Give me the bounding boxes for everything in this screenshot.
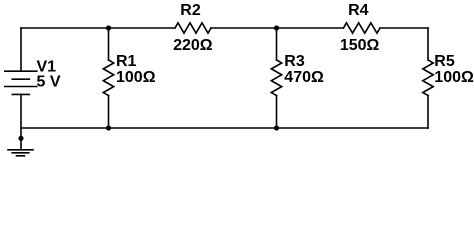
- ground: [8, 150, 33, 156]
- junction: node B top (R3 / top rail): [274, 25, 279, 30]
- battery V1: [5, 71, 37, 94]
- svg-text:R1: R1: [116, 53, 137, 70]
- svg-text:470Ω: 470Ω: [284, 69, 324, 86]
- svg-text:150Ω: 150Ω: [340, 37, 380, 54]
- resistor R3: [271, 60, 281, 96]
- junction: R3 / bottom rail: [274, 125, 279, 130]
- svg-text:R3: R3: [284, 53, 305, 70]
- wire: top rail between R2 and R4: [211, 27, 343, 29]
- wire: R5 bottom lead: [427, 96, 429, 129]
- svg-text:100Ω: 100Ω: [116, 69, 156, 86]
- resistor R1: [103, 60, 113, 96]
- svg-text:R2: R2: [180, 2, 201, 19]
- junction: ground wire: [18, 136, 23, 141]
- wire: R1 bottom lead: [108, 96, 110, 129]
- wire: top rail from R4 to right corner: [380, 27, 428, 29]
- wire: R1 top lead: [108, 28, 110, 60]
- wire: bottom rail: [21, 127, 428, 129]
- svg-text:R5: R5: [434, 53, 455, 70]
- wire: top rail from left corner to R2: [21, 27, 175, 29]
- wire: left rail upper (top corner to battery + plate): [20, 28, 22, 71]
- junction: node A top (R1 / top rail): [106, 25, 111, 30]
- resistor R5: [423, 60, 433, 96]
- wire: left rail lower (battery - plate through bottom rail to ground): [20, 94, 22, 149]
- svg-text:100Ω: 100Ω: [434, 69, 474, 86]
- wire: R3 top lead: [276, 28, 278, 60]
- svg-text:R4: R4: [348, 2, 369, 19]
- svg-text:5 V: 5 V: [37, 74, 61, 91]
- resistor R4: [343, 23, 380, 33]
- svg-text:220Ω: 220Ω: [173, 37, 213, 54]
- wire: R5 top lead: [427, 28, 429, 60]
- resistor R2: [175, 23, 211, 33]
- wire: R3 bottom lead: [276, 96, 278, 129]
- junction: R1 / bottom rail: [106, 125, 111, 130]
